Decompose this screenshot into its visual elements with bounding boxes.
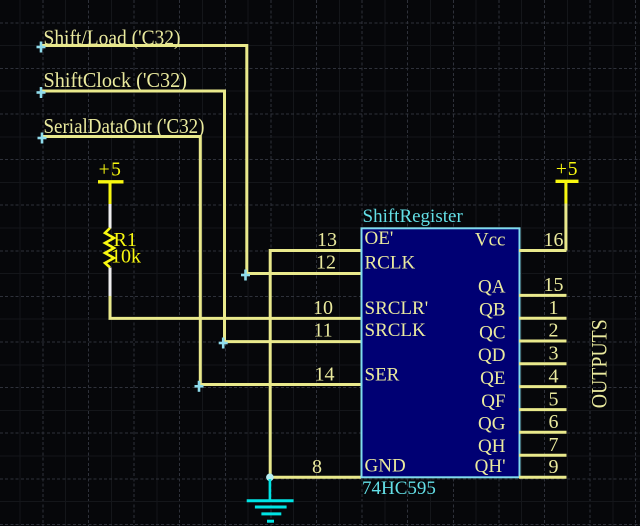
wire corner marker at SER xyxy=(195,381,204,392)
svg-text:5: 5 xyxy=(549,388,559,410)
svg-text:SRCLK: SRCLK xyxy=(365,320,427,341)
junction dot xyxy=(266,474,274,482)
pin 16 Vcc xyxy=(475,229,567,251)
svg-text:OE': OE' xyxy=(365,228,394,249)
svg-text:16: 16 xyxy=(544,229,564,251)
pin 2 QC xyxy=(479,320,566,344)
pin 4 QE xyxy=(480,365,566,389)
wire ShiftClock to SRCLK pin 11 xyxy=(41,91,361,342)
svg-text:QH': QH' xyxy=(475,456,506,477)
pin 9 QH' xyxy=(475,456,567,478)
svg-text:13: 13 xyxy=(317,229,337,251)
svg-text:8: 8 xyxy=(312,456,322,478)
svg-text:GND: GND xyxy=(365,456,406,477)
svg-text:+5: +5 xyxy=(556,159,579,180)
pin 3 QD xyxy=(478,342,566,366)
svg-text:QF: QF xyxy=(481,391,505,412)
svg-text:QG: QG xyxy=(478,414,506,435)
power +5 (R1 pull-up) xyxy=(98,159,124,204)
svg-text:1: 1 xyxy=(549,297,559,319)
resistor R1 pin 1 xyxy=(109,204,112,229)
svg-text:SerialDataOut ('C32): SerialDataOut ('C32) xyxy=(44,114,205,138)
svg-text:Vcc: Vcc xyxy=(475,230,506,251)
wire SerialDataOut to SER pin 14 xyxy=(42,137,361,385)
svg-text:SER: SER xyxy=(365,365,400,386)
wire corner marker at RCLK xyxy=(241,270,250,281)
svg-text:OUTPUTS: OUTPUTS xyxy=(587,319,612,408)
pin 11 SRCLK xyxy=(313,319,426,341)
pin 14 SER xyxy=(315,363,400,385)
svg-text:3: 3 xyxy=(549,342,559,364)
resistor R1 pin 2 xyxy=(109,268,112,298)
IC U1 74HC595 body xyxy=(362,228,520,477)
wire corner marker at SRCLK xyxy=(219,338,228,349)
pin 15 QA xyxy=(478,274,566,297)
svg-text:ShiftClock ('C32): ShiftClock ('C32) xyxy=(44,68,188,92)
pin 7 QH xyxy=(478,434,566,457)
svg-text:+5: +5 xyxy=(99,159,123,180)
pin 1 QB xyxy=(479,297,566,321)
wire end marker ShiftClock xyxy=(37,87,46,98)
wire Shift/Load to RCLK pin 12 xyxy=(41,46,361,274)
svg-text:QA: QA xyxy=(478,277,506,298)
wire end marker Shift/Load xyxy=(37,42,46,53)
svg-text:7: 7 xyxy=(549,434,559,456)
svg-text:74HC595: 74HC595 xyxy=(362,478,436,499)
wire R1 to SRCLR pin 10 xyxy=(110,296,361,318)
wire +5 to Vcc pin 16 xyxy=(564,204,567,251)
power +5 (Vcc) xyxy=(556,159,579,203)
pin 12 RCLK xyxy=(316,252,415,274)
ground xyxy=(247,479,294,521)
wire end marker SerialDataOut xyxy=(38,133,47,144)
svg-text:10: 10 xyxy=(313,297,333,319)
svg-text:15: 15 xyxy=(544,274,564,296)
svg-text:SRCLR': SRCLR' xyxy=(365,298,429,319)
svg-text:2: 2 xyxy=(549,320,559,342)
svg-text:9: 9 xyxy=(549,456,559,478)
svg-text:QD: QD xyxy=(478,345,505,366)
pin 5 QF xyxy=(481,388,566,412)
pin 6 QG xyxy=(478,411,566,435)
pin 13 OE' xyxy=(317,228,393,251)
pin 8 GND xyxy=(312,456,406,479)
svg-text:QC: QC xyxy=(479,322,505,343)
svg-text:14: 14 xyxy=(315,363,335,385)
svg-text:6: 6 xyxy=(549,411,559,433)
svg-text:ShiftRegister: ShiftRegister xyxy=(363,206,464,227)
resistor R1 body xyxy=(105,228,114,268)
svg-text:4: 4 xyxy=(549,365,559,387)
wire OE pin 13 to GND pin 8 xyxy=(270,251,361,478)
svg-text:QB: QB xyxy=(479,300,505,321)
pin 10 SRCLR' xyxy=(313,297,428,319)
svg-text:RCLK: RCLK xyxy=(365,253,416,274)
svg-text:10k: 10k xyxy=(111,246,141,268)
svg-text:QH: QH xyxy=(478,436,506,457)
svg-text:QE: QE xyxy=(480,368,505,389)
svg-text:12: 12 xyxy=(316,252,336,274)
svg-text:11: 11 xyxy=(313,319,332,341)
